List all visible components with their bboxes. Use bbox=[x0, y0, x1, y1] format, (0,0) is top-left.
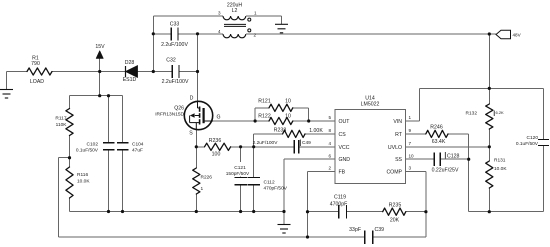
svg-text:10: 10 bbox=[409, 153, 415, 158]
wire FB drop bbox=[307, 172, 309, 238]
svg-text:OUT: OUT bbox=[339, 119, 351, 125]
wire R246 drop bbox=[468, 134, 470, 212]
svg-text:0.1uF/50V: 0.1uF/50V bbox=[76, 148, 99, 154]
svg-text:7: 7 bbox=[409, 141, 412, 146]
wire C33 branch vertical bbox=[152, 16, 154, 72]
wire C49 to VCC pin bbox=[299, 146, 335, 148]
wire FB node to C119 bbox=[308, 211, 339, 213]
wire R236 to C49 bbox=[231, 146, 295, 148]
wire divider tap stub bbox=[58, 157, 69, 159]
wire R121 right lead bbox=[293, 107, 309, 109]
resistor R132 bbox=[486, 104, 493, 129]
resistor R117 bbox=[66, 109, 73, 136]
capacitor C128 bbox=[433, 152, 435, 166]
tick C128 bbox=[444, 152, 446, 159]
wire R121 left bracket bbox=[254, 108, 256, 121]
op-amp U14 LM5022 controller box bbox=[335, 109, 406, 183]
diode D28 bbox=[126, 66, 138, 77]
svg-text:L2: L2 bbox=[232, 8, 238, 14]
svg-text:C49: C49 bbox=[302, 140, 311, 146]
tick R132 value bbox=[493, 111, 495, 117]
wire CS branch down bbox=[253, 134, 255, 178]
wire drain lead bbox=[197, 72, 199, 102]
svg-text:C120: C120 bbox=[527, 135, 539, 141]
wire VIN top run bbox=[420, 87, 544, 89]
svg-text:6: 6 bbox=[328, 153, 331, 158]
svg-text:4: 4 bbox=[328, 141, 331, 146]
capacitor C119 bbox=[338, 205, 340, 219]
wire UVLO to divider tap bbox=[406, 146, 490, 148]
wire ground stem top bbox=[281, 16, 283, 24]
svg-text:R116: R116 bbox=[77, 172, 88, 178]
15V supply arrow bbox=[96, 51, 103, 59]
capacitor C49 bbox=[293, 140, 295, 154]
svg-text:10.0K: 10.0K bbox=[77, 179, 90, 185]
wire gate line bbox=[213, 120, 269, 122]
svg-text:4700pF: 4700pF bbox=[330, 202, 348, 208]
svg-text:4: 4 bbox=[218, 29, 221, 34]
svg-text:UVLO: UVLO bbox=[388, 145, 402, 151]
svg-text:9: 9 bbox=[409, 128, 412, 133]
wire RT pin to R246 bbox=[406, 133, 426, 135]
wire SS pin to C128 bbox=[406, 158, 435, 160]
resistor R246 bbox=[426, 130, 448, 137]
capacitor C102 bbox=[103, 142, 115, 144]
svg-text:C33: C33 bbox=[170, 22, 180, 28]
resistor R131 bbox=[486, 161, 493, 188]
resistor R226 bbox=[193, 168, 200, 194]
svg-text:R236: R236 bbox=[209, 138, 222, 144]
svg-text:R132: R132 bbox=[466, 111, 478, 117]
wire R132 to R131 bbox=[488, 129, 490, 161]
wire node to L2 pin4 bbox=[198, 33, 224, 35]
svg-text:FB: FB bbox=[339, 170, 346, 176]
svg-text:C104: C104 bbox=[132, 142, 144, 148]
svg-text:150pF/50V: 150pF/50V bbox=[226, 171, 250, 177]
wire GND pin drop bbox=[283, 159, 285, 224]
svg-text:48V: 48V bbox=[513, 33, 522, 38]
wire left feedback drop bbox=[57, 158, 59, 237]
wire C104 top lead bbox=[122, 96, 124, 143]
wire to C33 bbox=[153, 33, 171, 35]
svg-text:63.4K: 63.4K bbox=[432, 139, 446, 145]
inductor L2 (coupled, 220uH) bbox=[223, 16, 246, 38]
wire C33 to node bbox=[178, 33, 198, 35]
svg-text:15V: 15V bbox=[95, 44, 105, 50]
wire VIN riser bbox=[419, 88, 421, 121]
wire L2 pin2 to 48V bbox=[251, 33, 496, 35]
resistor R122 bbox=[269, 117, 293, 124]
svg-text:C121: C121 bbox=[234, 165, 246, 171]
wire C120 bottom lead bbox=[543, 145, 545, 211]
svg-text:10: 10 bbox=[285, 99, 291, 105]
wire C121 top lead bbox=[240, 147, 242, 178]
svg-text:IRFR13N15D: IRFR13N15D bbox=[155, 112, 184, 118]
wire R121 left lead bbox=[255, 107, 269, 109]
tick C49 bbox=[299, 140, 301, 147]
svg-text:6.2K: 6.2K bbox=[496, 110, 505, 115]
wire C120 top lead bbox=[543, 88, 545, 139]
svg-text:110K: 110K bbox=[56, 122, 68, 128]
capacitor C39 bbox=[364, 230, 366, 244]
svg-text:R131: R131 bbox=[494, 158, 506, 164]
svg-text:SS: SS bbox=[395, 157, 402, 163]
svg-text:S: S bbox=[189, 131, 193, 137]
svg-text:2.2uF/100V: 2.2uF/100V bbox=[161, 42, 188, 48]
wire ground bus left bbox=[70, 211, 285, 213]
svg-text:D28: D28 bbox=[125, 60, 135, 66]
wire R235 to COMP drop bbox=[406, 211, 426, 213]
svg-text:2.2uF/100V: 2.2uF/100V bbox=[162, 79, 189, 85]
wire C32 to drain node bbox=[180, 71, 198, 73]
ground L2 secondary bbox=[275, 24, 288, 33]
svg-text:C39: C39 bbox=[375, 227, 385, 233]
wire COMP pin bbox=[406, 171, 426, 173]
svg-text:R238: R238 bbox=[274, 128, 287, 134]
wire C102 top lead bbox=[108, 96, 110, 143]
resistor R116 bbox=[66, 167, 73, 198]
svg-text:COMP: COMP bbox=[386, 170, 402, 176]
wire D28 to C32 bbox=[138, 71, 173, 73]
capacitor C33 bbox=[170, 27, 172, 40]
svg-text:1: 1 bbox=[254, 11, 257, 16]
wire C104 bottom lead bbox=[122, 150, 124, 212]
wire COMP drop bbox=[425, 172, 427, 238]
svg-text:2: 2 bbox=[254, 33, 257, 38]
svg-text:C102: C102 bbox=[87, 142, 99, 148]
svg-text:C128: C128 bbox=[447, 154, 460, 160]
svg-text:0.22uF/25V: 0.22uF/25V bbox=[432, 168, 459, 174]
svg-text:R235: R235 bbox=[389, 203, 402, 209]
wire R238 to CS pin bbox=[305, 133, 335, 135]
connector 48V bbox=[496, 30, 511, 38]
svg-text:20K: 20K bbox=[390, 218, 400, 224]
svg-text:R246: R246 bbox=[430, 125, 443, 131]
svg-text:LM5022: LM5022 bbox=[361, 102, 380, 108]
svg-text:33pF: 33pF bbox=[349, 227, 361, 233]
capacitor C121 bbox=[234, 177, 247, 179]
wire R121 right bracket bbox=[308, 108, 310, 121]
wire C102 bottom lead bbox=[108, 150, 110, 212]
svg-text:1.00K: 1.00K bbox=[309, 128, 323, 134]
wire FB pin bbox=[308, 171, 336, 173]
resistor R121 bbox=[269, 104, 293, 111]
svg-text:C112: C112 bbox=[264, 180, 275, 186]
wire C112 bottom lead bbox=[253, 185, 255, 212]
resistor R238 bbox=[283, 130, 305, 137]
svg-text:C32: C32 bbox=[166, 58, 176, 64]
svg-text:VCC: VCC bbox=[339, 145, 350, 151]
wire L2 pin1 to ground bbox=[251, 15, 281, 17]
wire 15V rail bbox=[99, 59, 101, 96]
wire C121 bottom lead bbox=[240, 185, 242, 212]
wire VIN pin bbox=[406, 120, 420, 122]
resistor R236 bbox=[205, 143, 231, 150]
wire source node to R236 bbox=[196, 146, 204, 148]
svg-text:100: 100 bbox=[212, 152, 221, 158]
svg-text:790: 790 bbox=[31, 61, 40, 67]
svg-text:5: 5 bbox=[328, 115, 331, 120]
svg-text:VIN: VIN bbox=[393, 119, 402, 125]
wire bottom run to C39 bbox=[308, 236, 365, 238]
svg-text:1: 1 bbox=[201, 186, 204, 192]
wire ground to R1 bbox=[7, 71, 28, 73]
wire 48V down to R132 bbox=[488, 34, 490, 104]
wire R116 to gnd bus bbox=[69, 198, 71, 212]
svg-text:470pF/50V: 470pF/50V bbox=[264, 186, 288, 192]
ground IC GND bbox=[278, 225, 291, 234]
capacitor C104 bbox=[117, 142, 129, 144]
resistor R1 bbox=[27, 68, 52, 75]
wire C128 right lead bbox=[440, 158, 469, 160]
capacitor C120 bbox=[538, 139, 549, 141]
svg-text:2.2uF/100V: 2.2uF/100V bbox=[253, 140, 279, 146]
svg-text:3: 3 bbox=[409, 166, 412, 171]
wire to L2 pin3 bbox=[153, 15, 223, 17]
wire C119 to R235 bbox=[347, 211, 383, 213]
transistor Q26 (N-MOSFET, gate right) bbox=[184, 101, 213, 130]
svg-text:LOAD: LOAD bbox=[30, 79, 44, 85]
wire to R238 bbox=[254, 133, 283, 135]
svg-text:ES1D: ES1D bbox=[123, 77, 137, 83]
capacitor C112 bbox=[247, 177, 260, 179]
wire R117 to R116 bbox=[69, 136, 71, 168]
capacitor C32 bbox=[171, 65, 173, 78]
svg-text:2: 2 bbox=[328, 166, 331, 171]
svg-text:R121: R121 bbox=[258, 99, 271, 105]
svg-text:3: 3 bbox=[218, 11, 221, 16]
wire to R117 top bbox=[69, 96, 71, 109]
resistor R235 bbox=[383, 208, 406, 215]
svg-text:R122: R122 bbox=[258, 114, 271, 120]
svg-text:G: G bbox=[217, 115, 221, 121]
svg-text:C119: C119 bbox=[334, 195, 346, 201]
svg-text:8: 8 bbox=[328, 128, 331, 133]
wire R1 to D28 bbox=[52, 71, 126, 73]
ground left (load return) bbox=[0, 90, 13, 99]
svg-text:1: 1 bbox=[409, 115, 412, 120]
wire R246 right lead bbox=[448, 133, 469, 135]
svg-text:Q26: Q26 bbox=[174, 106, 184, 112]
svg-text:10: 10 bbox=[285, 114, 291, 120]
svg-text:GND: GND bbox=[339, 157, 351, 163]
wire to OUT pin bbox=[293, 120, 335, 122]
wire ground bus right bbox=[469, 211, 544, 213]
svg-text:CS: CS bbox=[339, 132, 347, 138]
wire drain node vertical bbox=[197, 34, 199, 72]
wire source to R226 bbox=[195, 130, 197, 168]
wire 15V feed line bbox=[70, 95, 123, 97]
wire bottom feedback run bbox=[58, 236, 307, 238]
svg-text:R226: R226 bbox=[201, 175, 213, 181]
wire R226 to bus bbox=[195, 194, 197, 212]
svg-text:RT: RT bbox=[395, 132, 403, 138]
svg-text:10.0K: 10.0K bbox=[494, 166, 507, 172]
wire C39 to COMP corner bbox=[373, 236, 426, 238]
wire GND pin bbox=[284, 158, 335, 160]
svg-text:0.1uF/50V: 0.1uF/50V bbox=[516, 141, 539, 147]
wire ground stem left bbox=[6, 72, 8, 90]
svg-text:47uF: 47uF bbox=[132, 148, 143, 154]
svg-text:R117: R117 bbox=[55, 116, 66, 122]
wire R131 to bus bbox=[488, 188, 490, 212]
svg-text:D: D bbox=[190, 96, 194, 102]
